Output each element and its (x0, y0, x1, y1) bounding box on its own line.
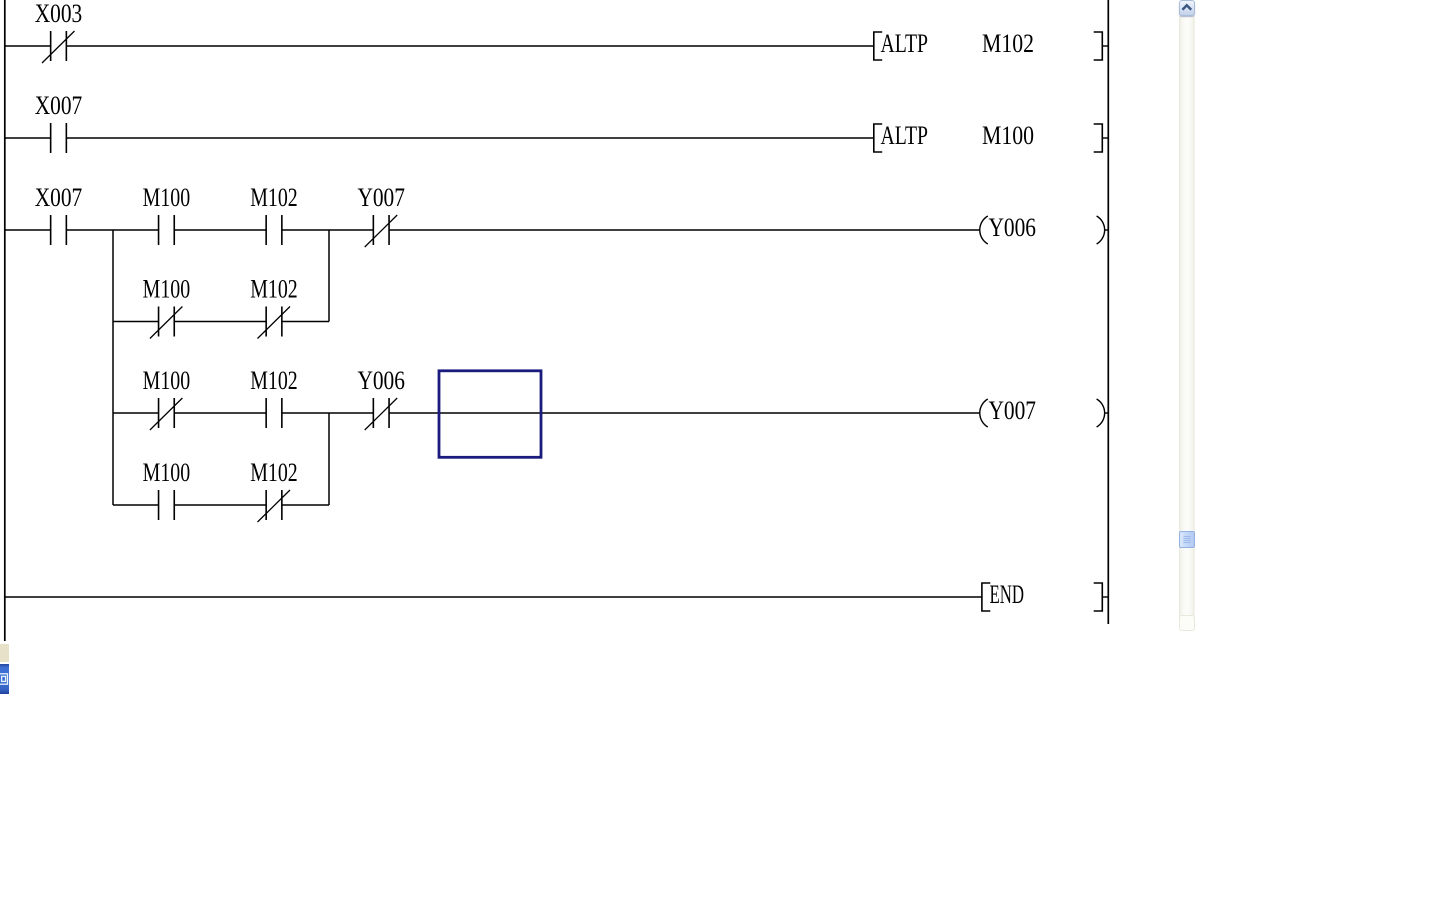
svg-text:M100: M100 (143, 275, 191, 304)
wire coil to right rail rung 3 (1105, 229, 1109, 231)
branch vertical wire node B upper (328, 230, 330, 322)
rung 3 wire (5, 229, 980, 231)
contact M100 (NO) branch 2 (159, 490, 175, 520)
taskbar fragment: tan block (0, 644, 9, 663)
contact Y006 (NC) rung 4 (365, 398, 398, 430)
svg-text:Y007: Y007 (357, 183, 405, 212)
rung 2 wire (5, 137, 874, 139)
svg-text:M102: M102 (982, 29, 1034, 58)
wire coil to right rail rung 4 (1105, 412, 1109, 414)
svg-text:M100: M100 (143, 183, 191, 212)
svg-text:X007: X007 (35, 183, 83, 212)
svg-text:M100: M100 (143, 458, 191, 487)
vertical scrollbar track (1179, 16, 1195, 625)
svg-text:X007: X007 (35, 91, 83, 120)
svg-text:M102: M102 (250, 183, 298, 212)
contact Y007 (NC) rung 3 (365, 215, 398, 247)
window icon on task button (0, 664, 10, 694)
contact M100 (NC) branch 1 (150, 307, 183, 339)
scrollbar thumb grip lines (1179, 531, 1195, 548)
contact X007 (NO) (51, 123, 67, 153)
coil Y007 right paren (1097, 399, 1105, 427)
contact M102 (NO) rung 4 (266, 398, 282, 428)
contact M100 (NC) rung 4 (150, 398, 183, 430)
svg-text:M102: M102 (250, 275, 298, 304)
coil Y006 right paren (1097, 216, 1105, 244)
wire bracket to right rail rung 2 (1102, 137, 1108, 139)
svg-text:X003: X003 (35, 0, 83, 28)
instruction right bracket rung 2 (1094, 124, 1103, 152)
END rung wire (5, 596, 982, 598)
scrollbar up arrow glyph (1179, 0, 1195, 16)
svg-text:M102: M102 (250, 366, 298, 395)
contact X003 (NC) (42, 31, 75, 63)
right power rail (1107, 0, 1109, 624)
rung 1 wire (5, 45, 874, 47)
taskbar fragment: blue task button with window icon (0, 664, 9, 694)
branch vertical wire node A (112, 230, 114, 505)
svg-text:ALTP: ALTP (881, 121, 929, 150)
contact M102 (NO) rung 3 (266, 215, 282, 245)
branch 2 wire (113, 504, 329, 506)
END instruction right bracket (1094, 583, 1103, 611)
svg-text:ALTP: ALTP (881, 29, 929, 58)
instruction right bracket (1094, 32, 1103, 60)
contact M100 (NO) rung 3 (159, 215, 175, 245)
edit cursor cell (blue selection box) (439, 371, 541, 458)
rung 4 wire (113, 412, 980, 414)
contact M102 (NC) branch 1 (258, 307, 291, 339)
coil Y007 left paren (980, 399, 988, 427)
svg-text:Y006: Y006 (357, 366, 405, 395)
instruction ALTP M102 left bracket (874, 32, 882, 60)
scrollbar up button (1179, 0, 1195, 16)
contact M102 (NC) branch 2 (258, 490, 291, 522)
svg-text:Y006: Y006 (989, 213, 1037, 242)
svg-text:Y007: Y007 (989, 396, 1037, 425)
svg-text:M100: M100 (982, 121, 1034, 150)
branch vertical wire node C lower (328, 413, 330, 505)
wire bracket to right rail END rung (1102, 596, 1108, 598)
left power rail (4, 0, 6, 641)
contact X007 (NO) rung 3 (51, 215, 67, 245)
instruction ALTP M100 left bracket (874, 124, 882, 152)
END instruction left bracket (982, 583, 990, 611)
scrollbar thumb (1179, 531, 1195, 548)
wire bracket to right rail rung 1 (1102, 45, 1108, 47)
branch 1 wire (113, 321, 329, 323)
svg-text:M100: M100 (143, 366, 191, 395)
svg-text:M102: M102 (250, 458, 298, 487)
coil Y006 left paren (980, 216, 988, 244)
scrollbar bottom (faded down button / window edge) (1179, 615, 1195, 631)
svg-text:END: END (990, 580, 1025, 609)
